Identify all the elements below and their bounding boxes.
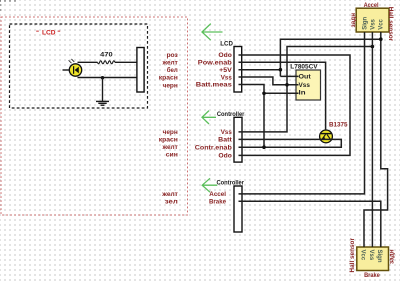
- LCD connector P1: [234, 47, 242, 93]
- transistor Q1 B1375: [320, 130, 333, 143]
- wire In: [264, 92, 299, 94]
- junction node +5V: [279, 68, 283, 72]
- svg-text:Hall sensor: Hall sensor: [349, 238, 356, 273]
- svg-text:желт: желт: [161, 191, 178, 198]
- wire Vss top run and riser to controller: [239, 47, 373, 132]
- wire Vss long vertical: [371, 32, 373, 247]
- green arrow Controller 2: [202, 178, 217, 192]
- wire Accel sign: [239, 32, 365, 194]
- wire color labels LCD cable: [159, 52, 178, 89]
- Controller connector P2: [234, 117, 242, 162]
- svg-text:Controller: Controller: [217, 179, 245, 186]
- wire Odo LCD: [239, 55, 351, 155]
- svg-text:красн: красн: [159, 75, 178, 82]
- svg-text:Sign: Sign: [376, 250, 382, 263]
- wire to ground: [102, 78, 104, 102]
- svg-text:Vcc: Vcc: [360, 250, 366, 261]
- junction ground tap: [101, 76, 104, 79]
- wire LED bottom to connector: [78, 77, 142, 79]
- Accel hall sensor U2: [356, 8, 389, 32]
- Controller 2 pin labels: [209, 191, 227, 205]
- svg-text:Vss: Vss: [368, 250, 374, 261]
- svg-text:Sign: Sign: [362, 16, 368, 29]
- svg-text:Hall sensor: Hall sensor: [387, 7, 394, 42]
- svg-text:L7805CV: L7805CV: [290, 63, 318, 70]
- svg-text:Batt.meas: Batt.meas: [196, 82, 233, 89]
- svg-text:желт: желт: [161, 144, 177, 151]
- junction node Contr.enab: [262, 145, 266, 149]
- wire color labels controller cable: [159, 129, 178, 159]
- green arrow Controller 1: [202, 111, 216, 124]
- wire color labels controller2 cable: [161, 191, 178, 205]
- wire resistor to connector: [115, 61, 141, 63]
- wire Pow.enab to base: [239, 62, 326, 130]
- svg-text:красн: красн: [159, 136, 178, 143]
- svg-text:Odo: Odo: [218, 52, 232, 59]
- svg-text:задн: задн: [389, 249, 396, 264]
- svg-text:Brake: Brake: [364, 272, 380, 279]
- wire +5V LCD: [239, 69, 281, 71]
- LED D1: [69, 59, 82, 76]
- svg-text:Vss: Vss: [299, 82, 311, 89]
- svg-text:Out: Out: [299, 73, 311, 80]
- LCD module dashed box: [10, 24, 148, 108]
- wire Brake sign: [239, 201, 381, 247]
- svg-text:Brake: Brake: [209, 199, 227, 206]
- svg-text:задн: задн: [350, 13, 357, 28]
- svg-text:Batt: Batt: [218, 137, 232, 144]
- LCD pin labels: [196, 52, 233, 88]
- svg-text:зел: зел: [165, 199, 178, 206]
- wire Vss LCD step: [239, 77, 299, 85]
- svg-text:+5V: +5V: [219, 67, 233, 74]
- Controller pin labels: [195, 129, 233, 159]
- junction node Vss top: [371, 45, 375, 49]
- LCD module connector J1: [137, 48, 144, 93]
- wire Batt through transistor hairpin: [239, 139, 342, 147]
- svg-text:B1375: B1375: [329, 121, 348, 128]
- svg-text:Accel: Accel: [209, 191, 226, 198]
- Controller connector P3: [234, 186, 242, 232]
- svg-text:роз: роз: [167, 52, 178, 59]
- junction node Vcc/+5V: [379, 37, 383, 41]
- svg-text:черн: черн: [163, 83, 178, 90]
- svg-text:470: 470: [100, 52, 113, 59]
- Brake pin names Vcc Vss Sign: [360, 250, 383, 263]
- red dashed region border: [1, 17, 188, 215]
- wire Vcc with jog: [364, 32, 388, 247]
- Brake hall sensor U3: [357, 247, 389, 271]
- wire Batt.meas step down: [239, 85, 265, 148]
- svg-text:Vcc: Vcc: [379, 18, 385, 29]
- svg-text:желт: желт: [161, 60, 177, 67]
- svg-text:син: син: [166, 152, 178, 159]
- wire Out: [280, 75, 298, 77]
- svg-text:Vss: Vss: [370, 18, 376, 29]
- svg-text:In: In: [299, 90, 306, 97]
- junction node Vss regulator: [285, 83, 289, 87]
- svg-text:LCD: LCD: [42, 29, 56, 36]
- wire +5V riser and top run: [280, 39, 380, 76]
- page border tick marks: [0, 0, 16, 11]
- regulator pin names Out Vss In: [299, 73, 311, 96]
- svg-text:Pow.enab: Pow.enab: [198, 60, 232, 67]
- wire LED to resistor: [78, 61, 98, 63]
- svg-text:Odo: Odo: [218, 153, 232, 160]
- ground: [96, 101, 109, 105]
- junction node In/Batt.meas: [262, 92, 266, 96]
- svg-text:Contr.enab: Contr.enab: [195, 144, 232, 151]
- svg-text:Vss: Vss: [221, 129, 233, 136]
- green arrow LCD: [202, 24, 223, 41]
- svg-text:Vss: Vss: [221, 74, 233, 81]
- svg-text:бел: бел: [167, 67, 178, 74]
- Accel pin names Sign Vss Vcc: [362, 16, 384, 29]
- wire LED left stub: [63, 69, 70, 71]
- svg-text:черн: черн: [163, 129, 178, 136]
- voltage regulator U1 L7805CV: [296, 70, 321, 100]
- svg-text:LCD: LCD: [220, 40, 233, 47]
